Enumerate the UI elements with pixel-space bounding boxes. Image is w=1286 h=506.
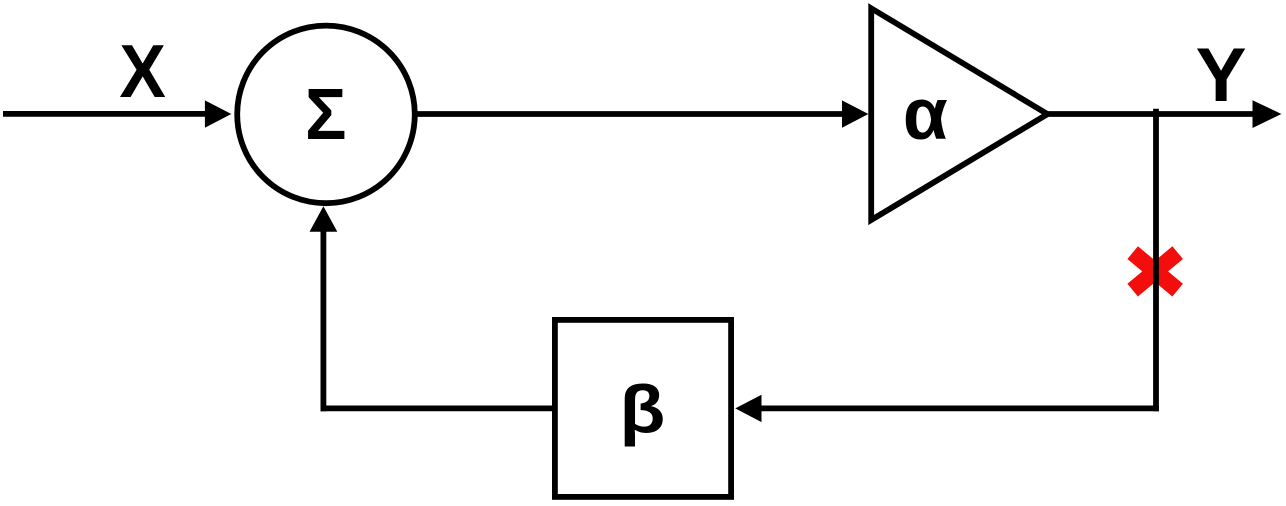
wire feedback vertical right (1153, 109, 1159, 411)
arrowhead output Y (1253, 100, 1282, 128)
arrowhead into beta box (735, 395, 761, 422)
wire input X to summer (3, 111, 208, 117)
op-amp triangle (alpha amplifier) (871, 8, 1047, 220)
svg-text:β: β (620, 371, 666, 447)
wire summer to amplifier (415, 111, 845, 117)
svg-text:α: α (903, 74, 948, 155)
summing junction circle (237, 26, 415, 204)
wire amplifier to output Y (1048, 111, 1255, 117)
arrowhead into amplifier (842, 100, 868, 127)
svg-text:X: X (119, 29, 165, 113)
svg-text:Y: Y (1196, 33, 1247, 118)
arrowhead into summer bottom (310, 206, 338, 231)
beta block box (555, 320, 731, 497)
arrowhead into summer (205, 100, 231, 127)
red X break mark on feedback line (1133, 253, 1178, 291)
wire feedback horizontal to beta box (759, 405, 1159, 411)
wire feedback vertical left up to summer (320, 229, 326, 411)
wire beta box to left corner (321, 405, 553, 411)
svg-text:Σ: Σ (305, 74, 347, 155)
